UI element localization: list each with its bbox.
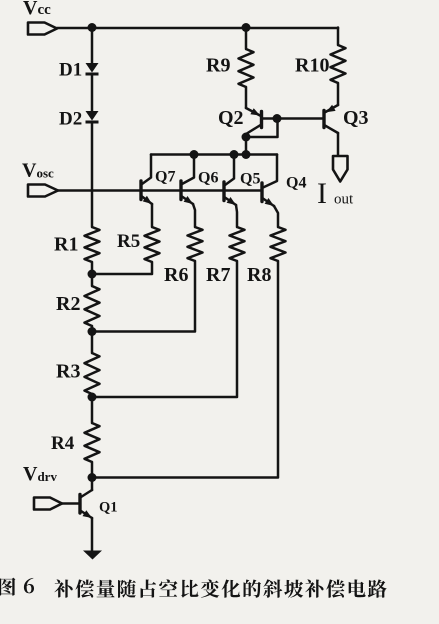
- transistor Q7 emitter: [142, 197, 152, 205]
- terminal Vcc input connector: [28, 23, 57, 35]
- transistor Q6 emitter: [182, 197, 193, 205]
- resistor R6: [188, 227, 203, 261]
- wire Q2 diode loop: [246, 119, 278, 138]
- svg-text:R9: R9: [206, 55, 230, 77]
- wire R7 bottom to divider: [92, 261, 237, 397]
- node R3-R7 junction: [88, 393, 97, 402]
- svg-text:R10: R10: [295, 55, 329, 77]
- svg-text:Vcc: Vcc: [23, 0, 51, 19]
- svg-text:R8: R8: [247, 264, 271, 286]
- transistor Q6 emitter arrow: [184, 196, 193, 204]
- wire D2 to R1: [91, 124, 94, 228]
- node rail-Q2 junction: [242, 150, 251, 159]
- wire Q2-Q3 base wire: [277, 117, 323, 120]
- terminal Vdrv input connector: [34, 498, 62, 510]
- wire R3 to R4: [91, 394, 94, 423]
- transistor Q1 emitter: [81, 511, 92, 518]
- caption text 图6 斜坡补偿电路: [0, 578, 15, 596]
- transistor Q7 emitter arrow: [143, 196, 152, 204]
- svg-text:I: I: [317, 177, 327, 210]
- wire collector rail: [151, 153, 277, 156]
- node R1-R5 junction: [88, 270, 97, 279]
- wire Q1 emitter to ground: [91, 518, 94, 551]
- node Vcc-R9 junction: [242, 23, 251, 32]
- svg-text:R3: R3: [56, 361, 80, 383]
- svg-text:Q7: Q7: [155, 169, 175, 186]
- transistor Q2 emitter arrow: [250, 108, 260, 115]
- transistor Q1 emitter arrow: [83, 510, 93, 518]
- svg-text:R6: R6: [164, 264, 188, 286]
- transistor Q1 collector: [81, 490, 92, 497]
- svg-text:R5: R5: [117, 231, 140, 252]
- transistor Q4 bar: [260, 183, 263, 202]
- wire R8 bottom to divider: [92, 261, 278, 478]
- transistor Q4 emitter arrow: [265, 198, 274, 206]
- diode D1: [86, 63, 99, 73]
- node rail-Q5 junction: [230, 150, 239, 159]
- node Q2 collector junction: [242, 133, 251, 142]
- transistor Q3 collector: [325, 126, 338, 134]
- wire R4 to Q1 collector: [91, 462, 94, 490]
- svg-text:R1: R1: [54, 234, 78, 256]
- transistor Q1 base lead: [62, 502, 80, 505]
- transistor Q5 emitter: [225, 198, 236, 206]
- node R2-R6 junction: [88, 327, 97, 336]
- svg-text:Q6: Q6: [198, 170, 218, 187]
- wire Q7 emitter to R5: [151, 204, 154, 227]
- transistor Q2 collector: [246, 125, 261, 134]
- resistor R1: [85, 227, 100, 262]
- terminal Iout output connector: [333, 156, 348, 182]
- transistor Q2 base lead: [262, 117, 278, 120]
- node Q2 base junction: [273, 114, 282, 123]
- svg-text:Q4: Q4: [286, 175, 306, 192]
- svg-text:Q2: Q2: [218, 107, 244, 129]
- wire Q4 emitter to R8: [274, 206, 278, 227]
- transistor Q6 bar: [179, 181, 182, 200]
- transistor Q3 bar: [322, 111, 325, 128]
- transistor Q2 bar: [260, 112, 263, 128]
- svg-text:R2: R2: [56, 293, 80, 315]
- transistor Q2 emitter: [246, 108, 260, 116]
- svg-text:Q5: Q5: [240, 171, 260, 188]
- wire Q2 collector to rail: [245, 134, 248, 155]
- node Vcc-divider junction: [88, 23, 97, 32]
- resistor R10: [331, 45, 346, 83]
- diode D2: [86, 111, 99, 121]
- transistor Q3 emitter arrow: [326, 105, 336, 113]
- transistor Q5 collector: [225, 155, 234, 186]
- transistor Q7 collector: [142, 155, 151, 185]
- wire R10 bottom lead: [337, 83, 340, 105]
- wire R1 to R2: [91, 262, 94, 286]
- ground symbol: [83, 551, 102, 560]
- resistor R2: [85, 286, 100, 326]
- svg-text:Q3: Q3: [343, 107, 369, 129]
- wire Q5 emitter to R7: [236, 205, 237, 227]
- wire D1 to D2: [91, 75, 94, 111]
- wire R5 bottom to divider: [92, 262, 152, 274]
- wire R9 top lead: [245, 28, 248, 50]
- wire R9 bottom lead: [245, 87, 248, 108]
- transistor Q4 emitter: [263, 199, 274, 207]
- wire Q6 emitter to R6: [193, 204, 195, 227]
- transistor Q7 bar: [139, 181, 142, 200]
- svg-text:Q1: Q1: [99, 500, 118, 516]
- resistor R9: [239, 49, 254, 87]
- wire Vcc top rail: [57, 27, 338, 30]
- svg-text:R4: R4: [51, 433, 75, 454]
- resistor R5: [145, 227, 160, 262]
- wire R6 bottom to divider: [92, 261, 195, 332]
- resistor R7: [230, 227, 245, 261]
- svg-text:R7: R7: [206, 264, 230, 286]
- transistor Q1 bar: [78, 495, 81, 514]
- wire R2 to R3: [91, 326, 94, 353]
- wire Vcc junction to D1: [91, 28, 94, 64]
- node R4-R8 junction: [88, 473, 97, 482]
- svg-text:D2: D2: [59, 109, 82, 130]
- node rail-Q6 junction: [190, 150, 199, 159]
- transistor Q5 emitter arrow: [227, 197, 236, 205]
- transistor Q6 collector: [182, 155, 194, 185]
- transistor Q5 bar: [222, 182, 225, 201]
- wire rail to Q4 collector: [263, 155, 277, 188]
- wire Q3 collector to Iout: [337, 133, 340, 155]
- transistor Q3 emitter: [326, 105, 339, 112]
- svg-text:D1: D1: [59, 60, 82, 81]
- wire rail to R10: [337, 28, 340, 46]
- terminal Vosc input connector: [28, 185, 58, 197]
- wire Vosc base line: [58, 189, 262, 192]
- resistor R8: [271, 227, 286, 261]
- svg-text:out: out: [334, 192, 354, 208]
- resistor R3: [85, 353, 100, 394]
- resistor R4: [85, 423, 100, 462]
